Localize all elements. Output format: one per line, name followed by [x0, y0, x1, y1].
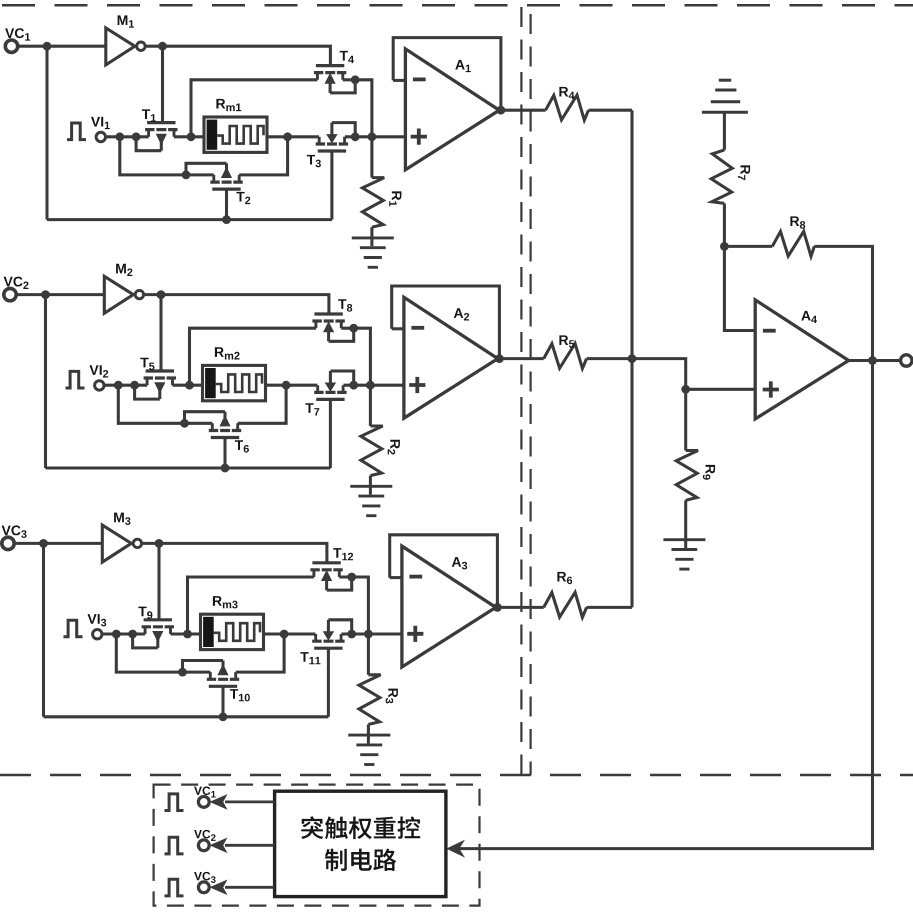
wire gate feed of T1: [161, 46, 164, 122]
wire bulk loop of T5: [135, 385, 160, 399]
ground below R2: [350, 485, 392, 488]
wire bulk loop of T9: [133, 634, 158, 648]
wire memristor to T3: [267, 135, 319, 138]
wire gate of T3 to bottom rail: [330, 151, 333, 220]
wire memristor input node up/over to T4: [191, 80, 317, 137]
transistor T5: [146, 369, 174, 372]
node bulk tie T10: [178, 668, 187, 677]
node A4 output: [868, 356, 877, 365]
transistor T9: [144, 618, 172, 621]
terminal control VC3: [198, 882, 209, 893]
wire control VC1 arrow: [225, 801, 275, 804]
wire R4 to bus: [589, 109, 633, 112]
wire T10 drain up to memristor output: [236, 634, 284, 672]
pulse symbol control VC3: [165, 879, 184, 896]
wire bulk loop of T11: [328, 620, 351, 634]
node VI1 branch: [115, 132, 124, 141]
node A3 output: [493, 603, 502, 612]
node VC1 branch: [43, 42, 52, 51]
arrowhead VC3: [210, 880, 228, 896]
wire gate of T10 to bottom rail: [221, 686, 224, 717]
terminal control VC2: [198, 840, 209, 851]
resistor R8: [772, 231, 814, 256]
node inverter output: [158, 42, 167, 51]
transistor T8: [314, 312, 342, 315]
wire bulk loop of T6: [185, 412, 226, 424]
resistor R4: [546, 95, 589, 120]
node A2 output: [495, 354, 504, 363]
wire memristor input node up/over to T12: [188, 577, 314, 634]
ground below R1: [352, 236, 394, 239]
wire bulk loop of T12: [327, 577, 352, 590]
wire bulk loop of T4: [330, 80, 355, 93]
wire VC2 to inverter: [16, 293, 104, 296]
wire bulk loop of T7: [330, 371, 353, 385]
resistor R7: [711, 150, 732, 204]
node memristor output: [282, 381, 291, 390]
node memristor input: [185, 381, 194, 390]
wire bulk loop of T8: [329, 328, 354, 341]
node memristor input: [187, 132, 196, 141]
transistor T4: [316, 64, 344, 67]
pulse symbol VI3: [64, 620, 83, 637]
terminal VI3: [93, 630, 102, 639]
transistor T12: [312, 561, 340, 564]
wire T4 drain to feedback corner: [343, 80, 372, 137]
arrowhead into control box: [446, 840, 465, 858]
node inverter output: [157, 290, 166, 299]
terminal VC3: [2, 537, 14, 549]
terminal VI2: [95, 381, 104, 390]
wire down to T10 source: [116, 634, 210, 672]
node A1 output: [497, 106, 506, 115]
wire A2 output to R5: [499, 357, 543, 360]
node bulk tie T1: [132, 132, 141, 141]
node R9 tap: [681, 385, 690, 394]
wire T12 drain to feedback corner: [339, 577, 368, 634]
inverted ground above R7: [702, 111, 748, 114]
wire VC2 down to bottom gate rail: [44, 295, 47, 468]
wire inverter output to T-gate top: [144, 295, 329, 315]
wire node to R8: [724, 245, 772, 248]
wire gate of T7 to bottom rail: [329, 400, 332, 469]
wire control VC3 arrow: [225, 886, 275, 889]
wire gate of T11 to bottom rail: [327, 648, 330, 717]
transistor T1: [147, 121, 175, 124]
text synapse weight control line 2: [325, 849, 396, 872]
ground below R3: [348, 734, 390, 737]
node T11 bulk tie: [347, 630, 356, 639]
node T7 bulk tie: [349, 381, 358, 390]
node T12 bulk tie: [347, 573, 356, 582]
resistor R2: [369, 385, 372, 426]
wire VC3 down to bottom gate rail: [42, 543, 45, 716]
wire feedback loop A3: [390, 535, 498, 608]
wire bottom gate rail: [44, 715, 329, 718]
wire inverter output to T-gate top: [142, 543, 327, 563]
node bulk tie T6: [180, 419, 189, 428]
wire memristor input node up/over to T8: [190, 328, 316, 385]
node gate T2: [222, 215, 231, 224]
wire VC1 to inverter: [18, 45, 106, 48]
wire gate of T2 to bottom rail: [225, 189, 228, 220]
wire bulk loop of T10: [183, 661, 224, 673]
wire memristor to T7: [266, 384, 318, 387]
wire control VC2 arrow: [225, 844, 275, 847]
wire A4 output: [849, 359, 903, 362]
terminal output: [901, 355, 912, 366]
wire feedback loop A2: [392, 286, 500, 359]
wire bulk loop of T3: [332, 123, 355, 137]
transistor T3: [318, 149, 346, 152]
node T4 bulk tie: [351, 75, 360, 84]
dashed divider left: [520, 7, 522, 775]
wire A1 output to R4: [501, 109, 546, 112]
transistor T6: [211, 436, 239, 439]
node T3 bulk tie: [351, 132, 360, 141]
pulse symbol VI2: [66, 371, 85, 388]
wire bulk loop of T1: [136, 137, 161, 151]
node inverter output: [155, 539, 164, 548]
node memristor input: [183, 630, 192, 639]
transistor T10: [209, 685, 237, 688]
node summing bus / R5: [628, 354, 637, 363]
dashed box around control circuit: [154, 785, 480, 906]
node feedback joins + input: [366, 381, 375, 390]
node memristor output: [283, 132, 292, 141]
wire R8 to output node: [814, 246, 872, 360]
wire VC3 to inverter: [14, 542, 102, 545]
wire A3 output to R6: [497, 606, 543, 609]
wire down to T2 source: [120, 137, 214, 175]
node feedback joins + input: [364, 630, 373, 639]
wire inverter output to T-gate top: [145, 46, 330, 66]
resistor R6: [544, 592, 587, 617]
node bulk tie T5: [130, 381, 139, 390]
node VC3 branch: [39, 539, 48, 548]
wire bottom gate rail: [47, 218, 332, 221]
wire ground to R7: [723, 112, 726, 150]
wire A4 output feedback down to control: [458, 361, 873, 849]
resistor R1: [370, 137, 373, 178]
wire bus to A4 + input: [632, 359, 755, 390]
wire T5 to memristor: [173, 384, 203, 387]
wire gate of T6 to bottom rail: [223, 438, 226, 469]
terminal VI1: [96, 132, 105, 141]
wire node down to A4 - input: [724, 246, 755, 330]
inverter M1: [106, 28, 135, 65]
text synapse weight control line 1: [301, 816, 420, 839]
terminal VC1: [5, 40, 17, 52]
node memristor output: [280, 630, 289, 639]
wire VC1 down to bottom gate rail: [45, 46, 48, 219]
wire VI3 to T9: [103, 632, 146, 635]
transistor T2: [212, 188, 240, 191]
arrowhead VC1: [210, 794, 228, 810]
wire summing bus vertical: [630, 110, 633, 607]
inverter M2: [104, 276, 133, 313]
wire bottom gate rail: [46, 466, 331, 469]
node T8 bulk tie: [349, 324, 358, 333]
wire memristor to T11: [264, 632, 316, 635]
node bulk tie T9: [128, 630, 137, 639]
wire T2 drain up to memristor output: [239, 137, 287, 175]
wire T9 to memristor: [171, 632, 201, 635]
wire T11 to op-amp: [341, 632, 402, 635]
transistor T11: [314, 647, 342, 650]
wire T6 drain up to memristor output: [238, 385, 286, 423]
dashed frame bottom: [0, 774, 913, 777]
wire T1 to memristor: [174, 135, 204, 138]
resistor R3: [367, 634, 370, 675]
wire R5 to bus: [587, 357, 632, 360]
node VI2 branch: [114, 381, 123, 390]
node gate T6: [221, 464, 230, 473]
ground below R9: [663, 538, 705, 541]
terminal control VC1: [198, 797, 209, 808]
wire R9 to ground: [684, 500, 687, 548]
wire T3 to op-amp: [345, 135, 406, 138]
wire VI1 to T1: [106, 135, 149, 138]
node VC2 branch: [41, 290, 50, 299]
wire R6 to bus: [587, 606, 632, 609]
inverter M3: [102, 525, 131, 562]
wire down to T6 source: [118, 385, 212, 423]
dashed divider right: [529, 14, 531, 775]
arrowhead VC2: [210, 838, 228, 854]
wire bulk loop of T2: [186, 163, 227, 175]
memristor Rm3: [201, 614, 264, 649]
op-amp A4: [755, 300, 848, 419]
wire T8 drain to feedback corner: [341, 328, 370, 385]
pulse symbol VI1: [67, 123, 86, 140]
wire feedback loop A1: [393, 38, 501, 111]
node feedback joins + input: [368, 132, 377, 141]
dashed frame top: [2, 4, 913, 7]
pulse symbol control VC2: [165, 837, 184, 854]
wire gate feed of T5: [159, 295, 162, 371]
node VI3 branch: [112, 630, 121, 639]
wire gate feed of T9: [157, 543, 160, 619]
wire T7 to op-amp: [343, 384, 404, 387]
resistor R5: [544, 344, 587, 369]
transistor T7: [316, 398, 344, 401]
wire VI2 to T5: [105, 384, 148, 387]
memristor Rm2: [203, 365, 266, 400]
control circuit box: [275, 791, 446, 896]
memristor Rm1: [204, 117, 267, 152]
node gate T10: [219, 712, 228, 721]
node R7/R8/A4 inverting: [720, 242, 729, 251]
wire R7 to node: [723, 203, 726, 246]
pulse symbol control VC1: [165, 794, 184, 811]
resistor R9: [684, 389, 687, 450]
node bulk tie T2: [182, 171, 191, 180]
terminal VC2: [4, 288, 16, 300]
